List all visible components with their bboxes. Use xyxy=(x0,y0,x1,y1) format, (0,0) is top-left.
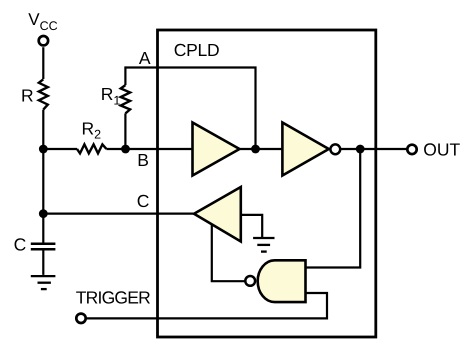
wire U2 bubble to OUT xyxy=(340,148,407,150)
wire R2 to node B xyxy=(106,148,192,150)
inverter U2 xyxy=(282,123,328,176)
resistor R2 xyxy=(77,144,106,153)
svg-text:C: C xyxy=(137,191,150,211)
capacitor C xyxy=(31,244,56,275)
svg-text:CPLD: CPLD xyxy=(174,40,219,60)
wire U4 output to U3 input xyxy=(212,224,246,282)
junction node B row left xyxy=(39,145,48,154)
buffer U3 (points left) xyxy=(194,187,241,242)
wire U3 input to ground xyxy=(241,215,262,238)
resistor R1 xyxy=(121,85,130,113)
terminal OUT xyxy=(407,145,416,154)
junction node B xyxy=(121,145,130,154)
ground (capacitor) xyxy=(31,276,56,289)
wire C row to buffer U3 xyxy=(43,213,194,215)
svg-text:R: R xyxy=(21,85,34,105)
wire R to node B row and node C row xyxy=(42,110,44,243)
wire OUT feedback to U4 top input xyxy=(306,149,361,268)
wire VCC to resistor R xyxy=(42,47,44,79)
svg-text:B: B xyxy=(137,150,149,170)
inverter U2 output bubble xyxy=(330,144,340,154)
svg-text:OUT: OUT xyxy=(423,140,460,160)
wire U1 output to U2 input xyxy=(240,148,283,150)
CPLD box xyxy=(158,30,376,337)
svg-text:TRIGGER: TRIGGER xyxy=(76,288,150,308)
NAND U4 output bubble xyxy=(245,276,255,286)
resistor R xyxy=(39,79,48,109)
buffer U1 xyxy=(193,123,240,176)
ground (buffer U3 input) xyxy=(253,238,274,252)
terminal TRIGGER xyxy=(76,314,85,323)
svg-text:C: C xyxy=(14,235,27,255)
junction OUT feedback xyxy=(356,145,365,154)
wire R1 to node A xyxy=(125,68,255,150)
wire node B row to R2 xyxy=(43,148,77,150)
NAND gate U4 xyxy=(258,260,306,302)
junction node C row left xyxy=(39,209,48,218)
wire TRIGGER to U4 bottom input xyxy=(87,293,327,318)
wire node B to R1 xyxy=(124,113,126,149)
terminal VCC xyxy=(39,36,48,45)
junction between inverters (node A feedback) xyxy=(251,145,260,154)
svg-text:A: A xyxy=(139,48,151,68)
